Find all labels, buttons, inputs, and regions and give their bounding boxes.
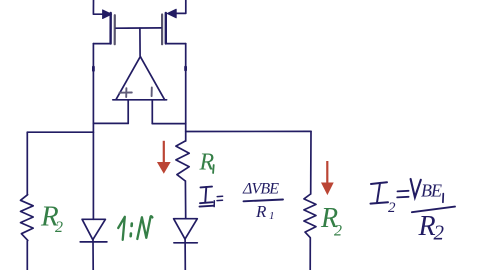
diode D2 xyxy=(174,219,198,243)
wire drain to -input xyxy=(152,123,185,125)
svg-text:1: 1 xyxy=(269,210,275,222)
resistor R2 right zigzag xyxy=(304,194,316,238)
current arrow I1 xyxy=(158,141,170,173)
equation I2 = VBE1/R2 xyxy=(371,179,456,212)
transistor M1 xyxy=(93,10,114,44)
wire VDD right xyxy=(175,0,186,13)
transistor M2 xyxy=(162,9,186,44)
op-amp U1 xyxy=(113,57,167,100)
node blob on right drain xyxy=(184,67,187,70)
svg-text:R: R xyxy=(255,202,267,221)
svg-text:2: 2 xyxy=(434,221,445,245)
label R1 xyxy=(199,150,215,176)
svg-text:ΔVBE: ΔVBE xyxy=(242,181,279,198)
diode D1 xyxy=(80,219,107,242)
wire left drain down xyxy=(92,44,94,220)
svg-text:BE: BE xyxy=(421,181,442,201)
wire R1 to diode D2 xyxy=(184,181,186,219)
wire right R2 bottom xyxy=(309,238,311,270)
resistor R1 zigzag xyxy=(176,141,189,181)
label R2 right xyxy=(320,203,342,240)
node blob on left drain xyxy=(92,67,95,71)
resistor R2 left zigzag xyxy=(21,195,34,241)
svg-text:2: 2 xyxy=(55,219,63,236)
wire diode D2 bottom xyxy=(184,239,186,270)
wire op-amp output to gates xyxy=(139,28,141,56)
wire diode D1 bottom xyxy=(92,240,94,270)
wire right drain down xyxy=(185,44,187,141)
wire left R2 bottom xyxy=(26,241,28,270)
wire to right branch xyxy=(186,130,311,132)
wire drain to +input xyxy=(93,122,128,124)
wire to left branch xyxy=(27,131,93,133)
svg-text:2: 2 xyxy=(334,223,342,240)
wire inverting input lead xyxy=(151,100,153,124)
wire right R2 top xyxy=(310,131,312,194)
label 1:N xyxy=(118,216,152,240)
svg-text:2: 2 xyxy=(388,200,396,216)
wire VDD left xyxy=(93,0,108,14)
label R2 left xyxy=(40,201,63,237)
wire gate bus xyxy=(116,27,161,29)
current arrow I2 xyxy=(322,161,333,194)
wire noninverting input lead xyxy=(127,100,129,124)
wire left R2 top xyxy=(26,132,28,195)
svg-text:R: R xyxy=(199,150,215,176)
equation I1 = dVBE/R1 xyxy=(200,187,284,207)
